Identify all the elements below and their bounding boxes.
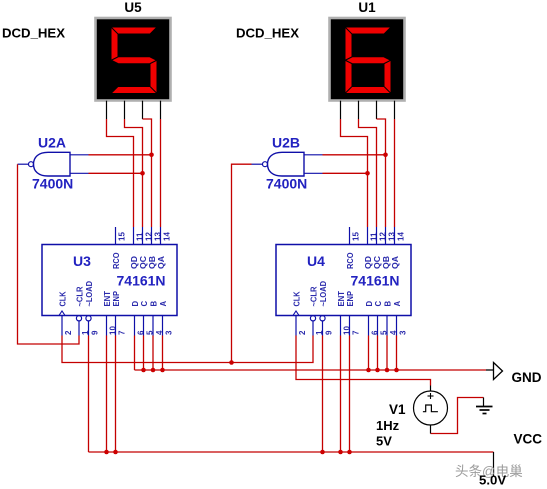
U3 bottom pin ENP (7) xyxy=(112,291,127,336)
svg-text:~LOAD: ~LOAD xyxy=(319,281,328,307)
U4 bottom pin ENT (10) xyxy=(337,291,352,336)
U3 top pin QD (11) xyxy=(130,227,145,269)
svg-text:CLK: CLK xyxy=(293,291,302,306)
svg-text:QC: QC xyxy=(373,256,382,269)
wire: U4 ~LOAD to VCC rail xyxy=(322,336,324,453)
svg-text:C: C xyxy=(140,301,149,307)
wire: U2A input A to QB net xyxy=(89,154,152,156)
U4 bottom pin B (4) xyxy=(384,301,399,336)
svg-text:11: 11 xyxy=(370,232,379,241)
svg-text:3: 3 xyxy=(165,330,174,335)
wire: U3 B to GND rail xyxy=(152,336,154,371)
svg-text:9: 9 xyxy=(325,330,334,335)
wire: U2B input A to QB net xyxy=(323,154,386,156)
junction QD/U2B xyxy=(365,171,370,176)
svg-text:U5: U5 xyxy=(124,0,142,15)
wire: U2A input B to QC net xyxy=(89,172,143,174)
svg-text:6: 6 xyxy=(371,330,380,335)
svg-text:15: 15 xyxy=(352,232,361,241)
wire left: display pin1 to counter QD xyxy=(107,119,134,227)
U4 bottom pin ENP (7) xyxy=(346,291,361,336)
svg-text:QB: QB xyxy=(382,256,391,269)
svg-text:6: 6 xyxy=(137,330,146,335)
junction QB/U2A xyxy=(149,153,154,158)
svg-text:ENP: ENP xyxy=(112,291,121,307)
svg-text:~CLR: ~CLR xyxy=(76,286,85,306)
junction U3 ENP/VCC xyxy=(113,450,118,455)
wire: VCC rail xyxy=(89,451,494,453)
wire right: display pin4 to counter QA xyxy=(394,119,396,227)
wire: U2B input B to QD net xyxy=(323,172,368,174)
U3 bottom pin CLK (2) xyxy=(59,291,74,335)
U2B input pin stubs xyxy=(304,154,323,156)
svg-text:11: 11 xyxy=(136,232,145,241)
svg-text:74161N: 74161N xyxy=(117,273,166,289)
junction U3 A/GND xyxy=(160,368,165,373)
svg-text:VCC: VCC xyxy=(514,432,543,447)
wire: U4 CLK to V1 xyxy=(296,336,431,386)
svg-text:13: 13 xyxy=(154,232,163,241)
display U5 DCD_HEX seven-segment xyxy=(96,18,171,101)
wire: U3 C to GND rail xyxy=(143,336,145,371)
svg-text:3: 3 xyxy=(399,330,408,335)
wire: U3 A to GND rail xyxy=(162,336,164,371)
U3 bottom pin D (6) xyxy=(131,301,146,336)
svg-text:A: A xyxy=(159,301,168,307)
ground node GND arrow xyxy=(486,363,503,380)
U2B output bubble xyxy=(263,162,268,167)
U3 bottom pin ~CLR (1) xyxy=(76,286,91,335)
svg-text:U2A: U2A xyxy=(38,135,66,151)
svg-text:5.0V: 5.0V xyxy=(479,473,506,488)
junction QB/U2B xyxy=(383,153,388,158)
U4 bottom pin C (5) xyxy=(374,301,389,336)
U3 bottom pin C (5) xyxy=(140,301,155,336)
U2A input pin stubs xyxy=(70,154,89,156)
svg-text:A: A xyxy=(393,301,402,307)
display U1 DCD_HEX seven-segment xyxy=(330,18,405,101)
svg-text:7: 7 xyxy=(352,330,361,335)
NAND gate U2B 7400N body xyxy=(252,152,323,176)
svg-text:12: 12 xyxy=(379,232,388,241)
earth ground symbol xyxy=(476,398,493,414)
svg-text:14: 14 xyxy=(163,232,172,241)
svg-text:74161N: 74161N xyxy=(351,273,400,289)
junction U4 ~LOAD/VCC xyxy=(320,450,325,455)
U3 top pin QC (12) xyxy=(139,227,154,269)
svg-text:2: 2 xyxy=(298,330,307,335)
junction QC/U2A xyxy=(140,171,145,176)
svg-text:QD: QD xyxy=(130,256,139,269)
junction U3 C/GND xyxy=(141,368,146,373)
wire left: display pin2 to counter QC xyxy=(125,119,143,227)
wire: U3 D to GND rail xyxy=(134,336,136,371)
junction U4 ENT/VCC xyxy=(338,450,343,455)
svg-text:13: 13 xyxy=(388,232,397,241)
U4 bottom pin D (6) xyxy=(365,301,380,336)
svg-text:14: 14 xyxy=(397,232,406,241)
svg-text:C: C xyxy=(374,301,383,307)
wire: GND rail xyxy=(135,369,487,371)
U2A output pin stub xyxy=(18,163,29,165)
U3 bottom pin ~LOAD (9) xyxy=(85,281,100,336)
svg-text:9: 9 xyxy=(91,330,100,335)
svg-text:D: D xyxy=(365,301,374,307)
junction U3 ENT/VCC xyxy=(104,450,109,455)
junction U4 C/GND xyxy=(375,368,380,373)
svg-text:U3: U3 xyxy=(73,253,91,269)
svg-text:V1: V1 xyxy=(389,402,406,417)
svg-text:2: 2 xyxy=(64,330,73,335)
svg-text:~CLR: ~CLR xyxy=(310,286,319,306)
NAND gate U2A 7400N body xyxy=(18,152,89,176)
U4 top pin QD (11) xyxy=(364,227,379,269)
svg-text:1Hz: 1Hz xyxy=(376,418,400,433)
svg-text:U4: U4 xyxy=(307,253,325,269)
svg-text:ENT: ENT xyxy=(103,291,112,307)
U3 top pin RCO (15) xyxy=(112,227,127,269)
svg-text:QD: QD xyxy=(364,256,373,269)
wire right: display pin3 to counter QB xyxy=(377,119,386,227)
svg-text:QB: QB xyxy=(148,256,157,269)
wire: U4 D to GND rail xyxy=(368,336,370,371)
U2A output bubble xyxy=(29,162,34,167)
wire left: display pin3 to counter QB xyxy=(143,119,152,227)
svg-text:QA: QA xyxy=(391,256,400,269)
display U1 pins xyxy=(341,101,395,119)
svg-text:~LOAD: ~LOAD xyxy=(85,281,94,307)
U3 bottom pin B (4) xyxy=(150,301,165,336)
svg-text:12: 12 xyxy=(145,232,154,241)
svg-text:5V: 5V xyxy=(376,434,392,449)
wire: U2B output down xyxy=(232,164,252,362)
svg-text:RCO: RCO xyxy=(346,253,355,270)
wire: U4 B to GND rail xyxy=(386,336,388,371)
svg-text:B: B xyxy=(384,301,393,307)
svg-text:15: 15 xyxy=(118,232,127,241)
svg-text:QA: QA xyxy=(157,256,166,269)
svg-text:GND: GND xyxy=(512,370,542,385)
wire right: display pin2 to counter QC xyxy=(359,119,377,227)
svg-text:DCD_HEX: DCD_HEX xyxy=(2,26,65,41)
wire: U3 CLK to U4 ~CLR net xyxy=(62,336,313,363)
wire: U4 C to GND rail xyxy=(377,336,379,371)
wire: U4 ENT to VCC rail xyxy=(340,336,342,453)
counter U4 74161N body xyxy=(276,245,411,316)
wire: U3 ~LOAD to VCC rail xyxy=(88,336,90,453)
U3 top pin QA (14) xyxy=(157,227,172,269)
junction U4 D/GND xyxy=(366,368,371,373)
svg-text:U1: U1 xyxy=(358,0,376,15)
U4 bottom pin ~CLR (1) xyxy=(310,286,325,335)
junction U4 B/GND xyxy=(385,368,390,373)
svg-text:DCD_HEX: DCD_HEX xyxy=(236,26,299,41)
U4 top pin QC (12) xyxy=(373,227,388,269)
U4 bottom pin CLK (2) xyxy=(293,291,308,335)
svg-text:QC: QC xyxy=(139,256,148,269)
wire: U4 A to GND rail xyxy=(396,336,398,371)
svg-text:U2B: U2B xyxy=(272,135,300,151)
power node VCC stub xyxy=(493,452,495,476)
display U5 pins xyxy=(107,101,161,119)
wire: U2A output to U3 ~CLR xyxy=(18,164,80,344)
U3 top pin QB (13) xyxy=(148,227,163,269)
svg-text:10: 10 xyxy=(109,326,118,335)
wire: U3 ENT to VCC xyxy=(106,336,108,453)
U3 bottom pin A (3) xyxy=(159,301,174,336)
junction U4 ENP/VCC xyxy=(347,450,352,455)
svg-text:CLK: CLK xyxy=(59,291,68,306)
svg-text:RCO: RCO xyxy=(112,253,121,270)
clock source V1 xyxy=(414,386,448,434)
U4 top pin QB (13) xyxy=(382,227,397,269)
svg-text:B: B xyxy=(150,301,159,307)
svg-text:ENT: ENT xyxy=(337,291,346,307)
U3 bottom pin ENT (10) xyxy=(103,291,118,336)
wire left: display pin4 to counter QA xyxy=(160,119,162,227)
U2B output pin stub xyxy=(252,163,263,165)
svg-text:7: 7 xyxy=(118,330,127,335)
wire: V1 negative to earth ground xyxy=(431,398,484,434)
svg-text:7400N: 7400N xyxy=(32,176,73,192)
svg-text:10: 10 xyxy=(343,326,352,335)
svg-text:ENP: ENP xyxy=(346,291,355,307)
wire: U4 ENP to VCC rail xyxy=(349,336,351,453)
svg-text:D: D xyxy=(131,301,140,307)
junction U3 B/GND xyxy=(151,368,156,373)
counter U3 74161N body xyxy=(42,245,177,316)
svg-text:7400N: 7400N xyxy=(266,176,307,192)
wire right: display pin1 to counter QD xyxy=(341,119,368,227)
wire: U3 ENP to VCC xyxy=(115,336,117,453)
U4 top pin QA (14) xyxy=(391,227,406,269)
junction U2B out / clock net xyxy=(229,360,234,365)
U4 top pin RCO (15) xyxy=(346,227,361,269)
junction U4 A/GND xyxy=(394,368,399,373)
U4 bottom pin ~LOAD (9) xyxy=(319,281,334,336)
U4 bottom pin A (3) xyxy=(393,301,408,336)
